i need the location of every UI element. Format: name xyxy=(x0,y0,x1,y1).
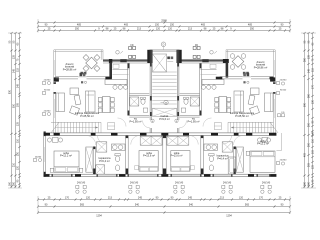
svg-text:485: 485 xyxy=(77,24,82,27)
svg-text:350: 350 xyxy=(250,28,255,31)
svg-text:115: 115 xyxy=(312,67,315,72)
svg-text:P=1,95 m²: P=1,95 m² xyxy=(129,119,141,123)
svg-text:550: 550 xyxy=(13,103,16,108)
svg-text:213: 213 xyxy=(188,28,193,31)
svg-text:590: 590 xyxy=(304,102,307,107)
svg-text:240/60: 240/60 xyxy=(44,80,51,82)
svg-text:240/140: 240/140 xyxy=(77,182,86,184)
svg-text:195: 195 xyxy=(17,102,20,107)
svg-text:565: 565 xyxy=(80,204,85,207)
svg-text:135: 135 xyxy=(13,54,16,59)
svg-text:130: 130 xyxy=(312,99,315,104)
svg-text:240/140: 240/140 xyxy=(223,182,232,184)
svg-text:240/140: 240/140 xyxy=(175,182,184,184)
svg-text:120: 120 xyxy=(168,28,173,31)
svg-text:P=12,2 m²: P=12,2 m² xyxy=(257,142,269,146)
svg-text:P=25,50 m²: P=25,50 m² xyxy=(235,114,249,118)
svg-text:1294: 1294 xyxy=(96,215,102,218)
svg-text:160: 160 xyxy=(9,181,12,186)
svg-text:170: 170 xyxy=(312,84,315,89)
svg-text:465: 465 xyxy=(201,24,206,27)
svg-text:90/200: 90/200 xyxy=(280,90,287,92)
svg-text:120: 120 xyxy=(156,28,161,31)
svg-text:120: 120 xyxy=(86,197,91,200)
svg-text:D: D xyxy=(163,43,165,46)
svg-text:213: 213 xyxy=(220,197,225,200)
svg-text:170: 170 xyxy=(65,197,70,200)
svg-text:P=28,86 m²: P=28,86 m² xyxy=(63,68,77,72)
svg-text:245: 245 xyxy=(188,197,193,200)
svg-text:150: 150 xyxy=(170,24,175,27)
svg-text:145: 145 xyxy=(17,83,20,88)
svg-text:465: 465 xyxy=(124,24,129,27)
svg-text:150: 150 xyxy=(17,151,20,156)
svg-text:P=12,2 m²: P=12,2 m² xyxy=(60,154,72,158)
svg-text:170: 170 xyxy=(259,197,264,200)
svg-text:565: 565 xyxy=(245,204,250,207)
svg-text:145: 145 xyxy=(13,68,16,73)
svg-text:P=13,6 m²: P=13,6 m² xyxy=(170,154,182,158)
svg-text:P=28,86 m²: P=28,86 m² xyxy=(254,66,268,70)
svg-text:110: 110 xyxy=(312,138,315,143)
svg-text:485: 485 xyxy=(248,24,253,27)
svg-text:200: 200 xyxy=(308,122,311,127)
svg-text:160: 160 xyxy=(308,181,311,186)
svg-text:2588: 2588 xyxy=(161,20,167,23)
svg-text:160: 160 xyxy=(304,181,307,186)
svg-text:160: 160 xyxy=(13,181,16,186)
svg-text:120: 120 xyxy=(239,197,244,200)
svg-text:200: 200 xyxy=(308,142,311,147)
svg-text:115: 115 xyxy=(17,67,20,72)
svg-text:110: 110 xyxy=(17,138,20,143)
svg-text:245: 245 xyxy=(138,197,143,200)
svg-text:205: 205 xyxy=(308,162,311,167)
svg-text:830: 830 xyxy=(9,89,12,94)
svg-text:210: 210 xyxy=(13,162,16,167)
svg-text:240/140: 240/140 xyxy=(262,182,271,184)
svg-text:120: 120 xyxy=(17,165,20,170)
svg-text:125: 125 xyxy=(312,164,315,169)
svg-text:105: 105 xyxy=(312,149,315,154)
svg-text:P=25,50 m²: P=25,50 m² xyxy=(80,114,94,118)
svg-text:M: M xyxy=(165,103,167,105)
svg-text:213: 213 xyxy=(108,197,113,200)
svg-text:135: 135 xyxy=(17,121,20,126)
svg-text:240/140: 240/140 xyxy=(130,182,139,184)
svg-text:P=6,4 m²: P=6,4 m² xyxy=(99,159,110,163)
svg-text:540: 540 xyxy=(135,204,140,207)
svg-text:240/60: 240/60 xyxy=(280,160,287,162)
svg-text:135: 135 xyxy=(308,54,311,59)
svg-text:240/60: 240/60 xyxy=(35,157,42,159)
svg-text:145: 145 xyxy=(308,68,311,73)
svg-text:150: 150 xyxy=(155,24,160,27)
svg-text:350: 350 xyxy=(75,28,80,31)
svg-text:260: 260 xyxy=(304,57,307,62)
svg-text:240/60: 240/60 xyxy=(280,80,287,82)
svg-text:P=9,6 m²: P=9,6 m² xyxy=(159,117,170,121)
svg-text:P=1,95 m²: P=1,95 m² xyxy=(187,119,199,123)
svg-text:240/60: 240/60 xyxy=(44,111,51,113)
svg-text:P=13,6 m²: P=13,6 m² xyxy=(143,154,155,158)
svg-text:360: 360 xyxy=(308,93,311,98)
svg-text:P=6,4 m²: P=6,4 m² xyxy=(217,156,228,160)
svg-text:540: 540 xyxy=(189,204,194,207)
svg-text:213: 213 xyxy=(137,28,142,31)
svg-text:1294: 1294 xyxy=(226,215,232,218)
svg-text:405: 405 xyxy=(304,152,307,157)
